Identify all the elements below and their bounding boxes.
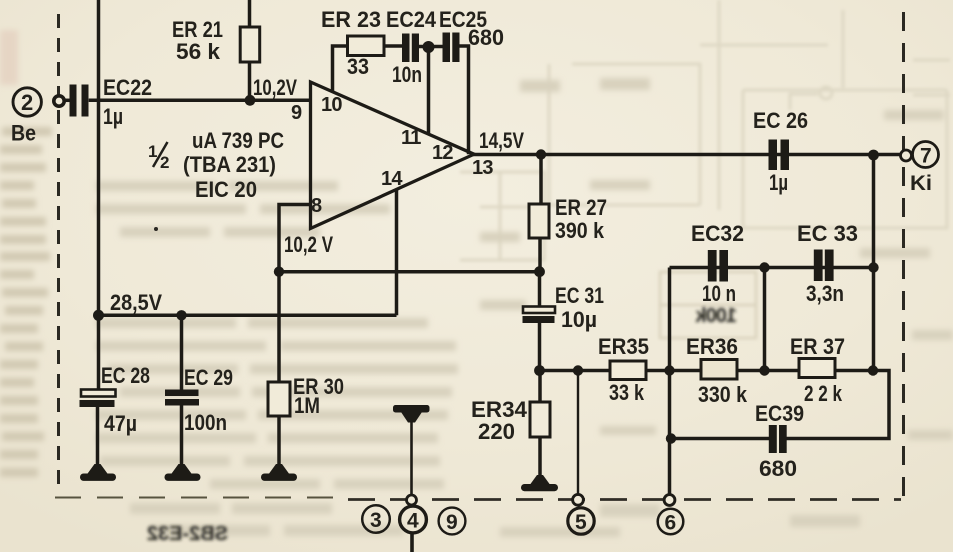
svg-text:390 k: 390 k: [555, 218, 605, 243]
resistor ER23: [348, 36, 385, 56]
capacitor EC26: [769, 140, 790, 171]
svg-text:2: 2: [160, 153, 169, 172]
open terminal circle node 5: [573, 494, 584, 505]
junction dot EC33 right: [868, 262, 878, 272]
open terminal circle node 2: [54, 96, 70, 106]
dashed boundary line right: [902, 12, 905, 498]
svg-text:1M: 1M: [294, 393, 320, 418]
junction dot rail mid: [759, 365, 769, 375]
svg-text:ER 37: ER 37: [790, 334, 845, 359]
ground under EC28: [80, 464, 116, 481]
svg-text:330 k: 330 k: [698, 382, 748, 407]
svg-text:8: 8: [311, 195, 322, 217]
svg-text:EC22: EC22: [103, 75, 152, 100]
terminal circle 9: [439, 508, 466, 535]
wire: left vertical node6 column: [668, 268, 672, 496]
svg-text:220: 220: [478, 419, 515, 444]
svg-text:9: 9: [446, 511, 458, 534]
svg-text:2 2 k: 2 2 k: [804, 381, 843, 406]
svg-text:1: 1: [148, 142, 157, 161]
svg-text:2: 2: [21, 90, 33, 115]
svg-text:10µ: 10µ: [561, 307, 597, 332]
svg-text:28,5V: 28,5V: [110, 290, 162, 315]
svg-text:3: 3: [370, 509, 382, 532]
svg-text:100n: 100n: [184, 410, 227, 435]
svg-text:Ki: Ki: [910, 172, 932, 195]
junction dot output right: [868, 150, 879, 161]
svg-text:EIC 20: EIC 20: [195, 177, 257, 202]
svg-text:10,2 V: 10,2 V: [284, 232, 333, 257]
junction dot rail node6: [664, 365, 674, 375]
svg-text:3,3n: 3,3n: [806, 281, 844, 306]
svg-text:ER36: ER36: [686, 334, 738, 359]
resistor ER34: [530, 371, 550, 479]
svg-text:(TBA 231): (TBA 231): [183, 152, 276, 177]
wire: terminal4 below circle: [410, 533, 414, 552]
svg-text:14,5V: 14,5V: [479, 128, 524, 153]
capacitor EC39: [769, 425, 787, 453]
svg-text:10: 10: [321, 94, 342, 116]
terminal circle 5: [568, 508, 594, 534]
resistor ER35: [610, 361, 646, 380]
svg-text:10 n: 10 n: [702, 281, 736, 306]
junction dot rail right: [868, 365, 878, 375]
svg-text:EC39: EC39: [755, 401, 804, 426]
svg-text:10n: 10n: [392, 62, 422, 87]
svg-text:EC 29: EC 29: [184, 365, 233, 390]
svg-text:EC 26: EC 26: [753, 108, 808, 133]
open terminal circle node 6: [664, 495, 675, 506]
ink speck: [154, 227, 158, 231]
terminal circle 6: [658, 509, 684, 535]
wire: pin9 input line: [89, 99, 311, 103]
svg-text:SB2-E32: SB2-E32: [147, 523, 228, 545]
open terminal circle node 7: [901, 150, 912, 161]
chassis ground bar terminal 4: [393, 405, 430, 423]
wire: mid vertical EC32-EC33 node down: [763, 268, 767, 371]
junction dot pin8 node: [274, 267, 284, 277]
wire: output line to Ki: [470, 153, 905, 157]
svg-text:680: 680: [468, 25, 504, 50]
junction dot output / ER27: [536, 149, 546, 159]
capacitor EC32: [708, 250, 728, 282]
wire: terminal4 drop: [410, 421, 413, 495]
resistor ER21: [240, 27, 260, 62]
wire: right vertical from output to NFB rail: [872, 155, 876, 371]
wire EC24 to EC25: [419, 45, 443, 49]
svg-text:EC32: EC32: [691, 221, 744, 246]
resistor ER30: [268, 382, 290, 467]
junction dot 28,5V left: [93, 310, 104, 321]
svg-text:100k: 100k: [695, 305, 737, 327]
resistor ER36: [701, 360, 737, 380]
terminal circle 4: [400, 506, 427, 533]
ground under EC29: [165, 464, 201, 481]
junction dot terminal5: [573, 365, 583, 375]
wire: NFB rail y370: [540, 371, 890, 439]
wire: EC39 left: [670, 437, 770, 441]
wire: +supply vertical from top to 28,5V node: [97, 0, 101, 315]
svg-text:uA 739 PC: uA 739 PC: [192, 128, 284, 153]
svg-text:7: 7: [920, 145, 932, 168]
svg-text:33: 33: [347, 54, 369, 79]
svg-text:4: 4: [407, 510, 419, 533]
capacitor EC25: [443, 33, 460, 63]
terminal circle 3: [362, 505, 390, 533]
op-amp U1 uA739 triangle: [311, 82, 475, 229]
wire ER23 to EC24: [384, 44, 402, 48]
pink smudge top-left: [0, 30, 18, 85]
terminal circle 2: [13, 88, 41, 116]
svg-text:11: 11: [401, 127, 421, 149]
wire: EC25 to output node: [460, 46, 469, 154]
wire: EC32 EC33 row: [670, 266, 874, 270]
wire: pin14 down to 28,5V rail: [395, 189, 399, 315]
wire: pin8 stub: [279, 205, 311, 273]
resistor ER27: [529, 155, 549, 273]
open terminal circle node 4: [407, 495, 417, 505]
svg-text:5: 5: [575, 511, 587, 534]
svg-text:33 k: 33 k: [609, 380, 645, 405]
label 1/2 fraction: [148, 142, 169, 172]
wire: 28,5V rail: [99, 314, 397, 318]
svg-text:EC24: EC24: [386, 7, 437, 32]
svg-text:1µ: 1µ: [769, 170, 788, 195]
svg-text:14: 14: [381, 168, 403, 190]
junction dot at ER21 / pin9: [245, 95, 256, 106]
svg-text:Be: Be: [11, 121, 36, 146]
capacitor EC33: [814, 250, 834, 282]
capacitor EC24: [402, 34, 419, 63]
svg-text:12: 12: [432, 142, 453, 164]
svg-text:680: 680: [759, 456, 797, 481]
capacitor EC22: [65, 85, 89, 117]
junction dot EC29 top: [176, 310, 186, 320]
junction dot EC31 top: [534, 266, 545, 277]
wire: pin8 node to EC31 top node: [279, 270, 540, 274]
svg-text:9: 9: [291, 102, 302, 124]
resistor ER37: [799, 359, 835, 378]
dashed boundary line left: [57, 14, 60, 491]
svg-text:6: 6: [665, 512, 677, 535]
junction dot rail left: [534, 365, 545, 376]
capacitor EC31 electrolytic: [523, 272, 556, 371]
svg-text:56 k: 56 k: [176, 39, 221, 64]
svg-text:13: 13: [472, 157, 493, 179]
decorative bleed-through, not labelled individually: [460, 0, 950, 260]
svg-text:ER35: ER35: [598, 334, 649, 359]
svg-text:ER 27: ER 27: [555, 195, 607, 220]
wire: ER30 branch down: [277, 272, 281, 382]
svg-text:ER 23: ER 23: [321, 7, 381, 32]
ground under ER34: [521, 475, 558, 491]
wire: ER21 branch from top: [248, 0, 252, 100]
junction dot EC39 node: [666, 433, 676, 443]
capacitor EC28 electrolytic: [80, 315, 116, 467]
svg-text:10,2V: 10,2V: [253, 75, 297, 100]
wire: pin11 from feedback node down: [427, 47, 431, 134]
svg-text:EC 28: EC 28: [101, 363, 150, 388]
dashed boundary line bottom: [55, 498, 901, 500]
junction dot feedback node pin11: [423, 41, 435, 53]
svg-text:47µ: 47µ: [104, 411, 137, 436]
junction dot between EC32 EC33: [759, 262, 769, 272]
capacitor EC29: [165, 315, 199, 467]
wire: terminal5 drop: [577, 371, 579, 495]
ground under ER30: [261, 464, 297, 481]
svg-text:EC 33: EC 33: [797, 221, 858, 246]
wire: pin10 up to feedback: [333, 46, 348, 92]
svg-text:EC 31: EC 31: [555, 283, 604, 308]
terminal circle 7: [913, 142, 939, 168]
svg-text:1µ: 1µ: [103, 104, 123, 129]
